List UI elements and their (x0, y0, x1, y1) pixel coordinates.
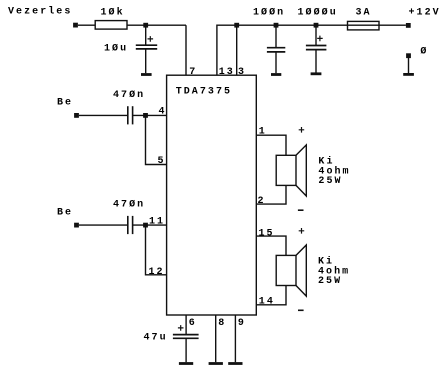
svg-text:Be: Be (57, 207, 73, 218)
svg-text:1ØØn: 1ØØn (253, 7, 285, 19)
svg-text:9: 9 (238, 318, 246, 329)
svg-text:8: 8 (218, 318, 226, 329)
svg-text:15: 15 (259, 228, 275, 239)
svg-text:14: 14 (259, 297, 275, 308)
svg-text:25W: 25W (318, 176, 342, 187)
svg-text:Vezerles: Vezerles (8, 5, 72, 17)
svg-text:5: 5 (158, 156, 166, 167)
svg-text:12: 12 (149, 267, 165, 278)
svg-text:25W: 25W (318, 276, 342, 287)
svg-text:1Øk: 1Øk (101, 7, 125, 19)
svg-text:47u: 47u (144, 332, 168, 343)
svg-text:47Øn: 47Øn (113, 89, 145, 101)
svg-text:4: 4 (159, 107, 167, 118)
svg-text:11: 11 (149, 217, 165, 228)
svg-text:Be: Be (57, 98, 73, 109)
svg-text:2: 2 (258, 196, 266, 207)
svg-text:13: 13 (219, 67, 235, 78)
svg-text:1ØØØu: 1ØØØu (298, 7, 338, 19)
svg-text:1: 1 (259, 127, 267, 138)
svg-text:1Øu: 1Øu (104, 43, 128, 55)
svg-text:Ø: Ø (420, 46, 428, 58)
svg-text:47Øn: 47Øn (113, 199, 145, 211)
svg-text:6: 6 (189, 318, 197, 329)
svg-text:TDA7375: TDA7375 (176, 87, 232, 98)
svg-text:+12V: +12V (409, 8, 441, 19)
svg-text:3A: 3A (356, 8, 372, 19)
svg-text:7: 7 (189, 67, 197, 78)
svg-text:3: 3 (238, 67, 246, 78)
